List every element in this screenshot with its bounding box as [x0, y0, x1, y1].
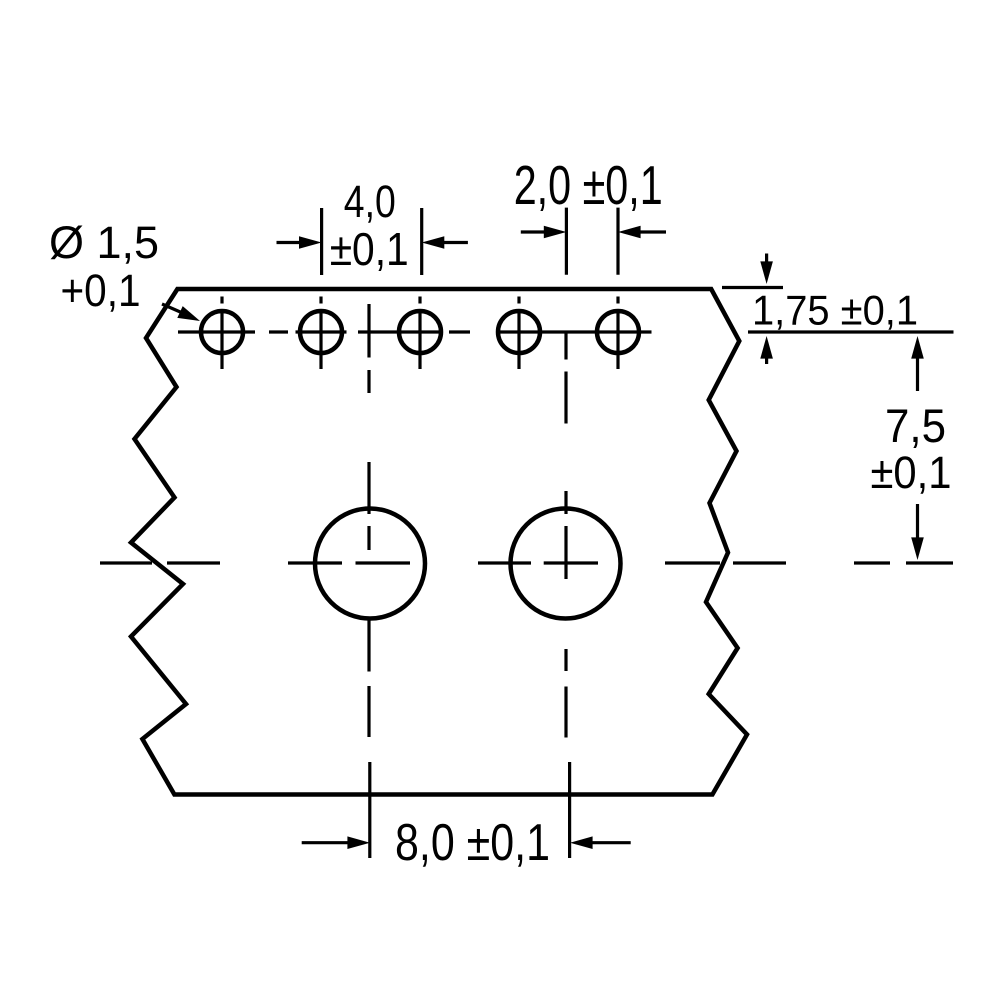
big hole B1	[315, 509, 425, 619]
dimension 2,0 ±0,1 extension lines	[566, 208, 618, 275]
svg-text:+0,1: +0,1	[61, 265, 141, 316]
dimension 1,75 top reference line	[722, 286, 783, 289]
vertical centerline of H1	[220, 297, 223, 370]
svg-text:8,0 ±0,1: 8,0 ±0,1	[395, 814, 550, 872]
horizontal centerline of small hole row	[178, 330, 652, 333]
dimension 2,0 left arrow	[521, 226, 567, 239]
dimension 8,0 left arrow	[302, 836, 370, 849]
vertical centerline of H5	[616, 297, 619, 370]
leader line from Ø 1,5 label to H1	[162, 304, 200, 321]
vertical centerline through B1	[367, 304, 370, 737]
horizontal centerline of big hole row	[100, 561, 953, 564]
small hole H1	[201, 311, 243, 353]
vertical centerline through B2	[564, 333, 567, 738]
small hole H3	[399, 311, 441, 353]
extension line x=370 for 8,0 dimension	[368, 762, 371, 858]
svg-text:4,0: 4,0	[344, 176, 396, 227]
dimension 2,0 right arrow	[618, 226, 666, 239]
vertical centerline of H2	[319, 297, 322, 370]
svg-text:±0,1: ±0,1	[871, 447, 952, 498]
dimension 1,75 up arrow	[760, 336, 773, 364]
small hole H5	[597, 311, 639, 353]
svg-text:±0,1: ±0,1	[330, 223, 409, 275]
dimension 8,0 right arrow	[570, 836, 631, 849]
extension line x=569.6 for 8,0 dimension	[568, 762, 571, 858]
small hole H4	[498, 311, 540, 353]
svg-text:Ø 1,5: Ø 1,5	[49, 217, 159, 268]
svg-text:1,75 ±0,1: 1,75 ±0,1	[752, 287, 918, 334]
svg-text:7,5: 7,5	[885, 399, 946, 452]
dimension 1,75 bottom reference line	[748, 330, 954, 333]
svg-text:2,0 ±0,1: 2,0 ±0,1	[514, 154, 663, 216]
small hole H2	[300, 311, 342, 353]
dimension 1,75 down arrow	[760, 254, 773, 285]
dimension 7,5 vertical line lower arrow	[911, 504, 924, 560]
dimension 4,0 right arrow	[422, 236, 468, 249]
vertical centerline of H4	[517, 297, 520, 370]
vertical centerline of H3	[418, 297, 421, 370]
plate outline with break lines	[131, 289, 747, 795]
dimension 7,5 vertical line upper arrow	[911, 336, 924, 391]
dimension 4,0 ±0,1 extension lines	[322, 208, 422, 275]
big hole B2	[511, 509, 621, 619]
dimension 4,0 left arrow	[277, 236, 322, 249]
